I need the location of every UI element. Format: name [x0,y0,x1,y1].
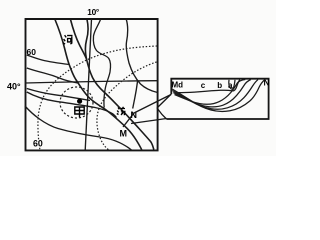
dashed arc outer [38,46,157,150]
svg-text:60: 60 [27,47,37,57]
meridian 10 degree line [85,19,91,150]
inset contour v5 innermost hook [229,80,235,89]
contour 60 upper-left curve [27,55,70,65]
contour curve lower-left [25,106,132,150]
character liu (flow) [117,107,125,115]
inset contour v1 [172,80,258,110]
callout line lower [131,119,167,124]
svg-text:Md: Md [172,81,184,90]
contour curve pair upper [27,89,90,101]
inset box with wedge [167,79,269,119]
river right bank upper [71,20,87,60]
svg-text:40°: 40° [7,82,21,92]
MN segment [123,113,134,127]
river left bank [55,20,142,151]
callout line upper [132,95,171,115]
dashed arc inner [97,62,157,150]
inset contour v0 outermost [171,79,265,111]
wedge upper line [157,94,171,108]
parallel 40 degree line [26,81,158,83]
stream branch to N [133,82,138,109]
character jia [75,107,84,117]
inset contour v3 [175,80,246,105]
svg-text:b: b [217,81,222,90]
contour second curve upper-left [27,68,78,83]
svg-text:N: N [264,78,270,88]
svg-text:c: c [201,81,206,90]
jia dot [77,99,82,104]
tributary right edge and river right bank [93,20,110,108]
contour curve through jia area [27,92,117,118]
wedge lower line [157,108,167,119]
inset contour v2 [173,80,251,107]
tributary left edge [85,20,153,150]
character he (river) [63,35,72,44]
svg-text:60: 60 [33,139,43,149]
dashed circle around jia [60,87,93,118]
map border rectangle [26,19,158,150]
inset contour v4 runner [177,80,240,93]
svg-text:M: M [120,129,128,139]
svg-text:10°: 10° [87,7,99,17]
stream top-right [126,19,158,93]
